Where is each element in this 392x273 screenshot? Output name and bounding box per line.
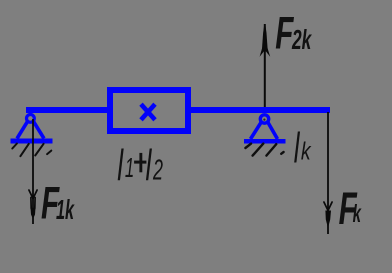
svg-text:l: l <box>294 123 301 172</box>
force F2k: right fin <box>266 48 270 57</box>
wire: beam left segment <box>26 107 110 113</box>
force F1k: arrowhead down <box>31 208 36 219</box>
support B: ground bar <box>244 139 286 144</box>
force F2k: arrowhead up (solid body) <box>262 26 268 52</box>
X mark inside box <box>141 104 155 120</box>
svg-text:k: k <box>301 137 312 165</box>
svg-text:1k: 1k <box>56 193 75 225</box>
force F2k: line of action <box>264 24 266 107</box>
svg-text:l: l <box>117 140 124 190</box>
support A: ground hatching <box>12 144 51 157</box>
plus sign of l1+l2 <box>139 153 142 172</box>
force F1k: barbs <box>29 190 37 209</box>
support B: pin circle <box>260 115 268 123</box>
wire: beam right segment <box>188 107 330 113</box>
force Fk: arrowhead down <box>325 211 331 229</box>
support A: triangle left leg <box>17 122 28 139</box>
support B: ground hatching <box>245 144 283 156</box>
support A: ground bar <box>11 139 53 144</box>
support A: triangle right leg <box>34 122 45 139</box>
svg-text:2: 2 <box>152 154 163 186</box>
force Fk: barbs <box>324 202 332 211</box>
support B: pin dot <box>263 119 265 121</box>
support A: pin circle <box>27 115 35 123</box>
force F2k: left fin <box>260 48 264 57</box>
svg-text:2k: 2k <box>291 24 312 55</box>
support B: triangle left leg <box>251 123 262 140</box>
svg-text:k: k <box>353 200 362 228</box>
svg-text:1: 1 <box>125 152 134 184</box>
force F1k: line of action <box>32 119 34 224</box>
force Fk: line of action <box>327 112 329 234</box>
support B: triangle right leg <box>268 123 278 140</box>
beam element box (load block) <box>110 90 188 131</box>
svg-text:l: l <box>146 140 153 190</box>
